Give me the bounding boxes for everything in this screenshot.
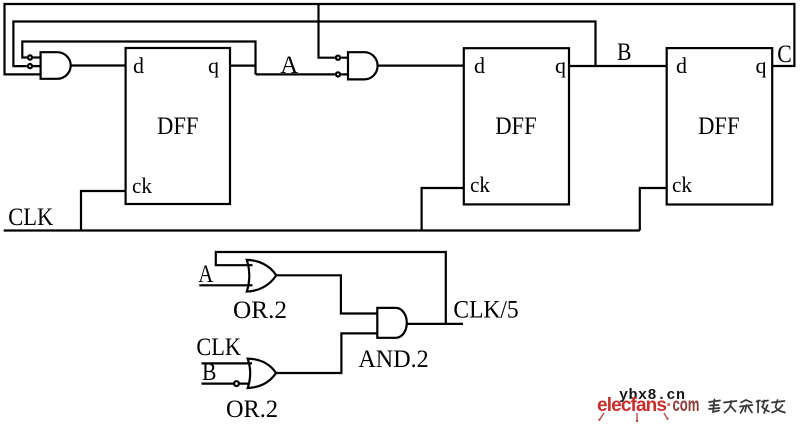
svg-text:ck: ck [672, 172, 692, 197]
svg-text:OR.2: OR.2 [226, 396, 278, 423]
svg-text:C: C [777, 41, 792, 68]
svg-text:q: q [756, 53, 767, 78]
svg-text:d: d [676, 53, 687, 78]
svg-text:d: d [133, 53, 144, 78]
svg-text:q: q [555, 53, 566, 78]
svg-text:CLK/5: CLK/5 [453, 297, 518, 324]
svg-text:ck: ck [470, 172, 490, 197]
svg-text:CLK: CLK [8, 204, 53, 231]
svg-text:d: d [474, 53, 485, 78]
svg-text:ck: ck [132, 173, 152, 198]
svg-text:OR.2: OR.2 [233, 297, 287, 324]
svg-text:q: q [208, 53, 219, 78]
svg-text:elecfans·com: elecfans·com [597, 395, 699, 416]
svg-text:B: B [617, 39, 632, 66]
svg-text:B: B [202, 359, 217, 386]
svg-text:CLK: CLK [196, 334, 241, 361]
svg-text:A: A [280, 52, 298, 79]
svg-text:DFF: DFF [495, 113, 537, 140]
svg-text:DFF: DFF [157, 113, 199, 140]
svg-text:AND.2: AND.2 [358, 346, 428, 373]
svg-text:A: A [198, 261, 213, 288]
svg-text:DFF: DFF [698, 113, 740, 140]
